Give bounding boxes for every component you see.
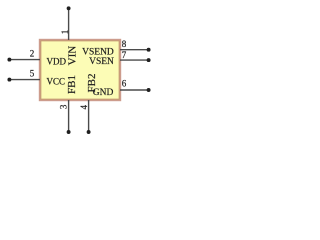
svg-text:VDD: VDD: [47, 57, 67, 67]
svg-text:5: 5: [30, 69, 35, 79]
svg-text:1: 1: [60, 30, 70, 35]
svg-text:7: 7: [122, 50, 127, 60]
svg-text:FB1: FB1: [66, 75, 78, 94]
svg-text:3: 3: [58, 104, 68, 109]
svg-text:VIN: VIN: [67, 46, 79, 66]
svg-text:6: 6: [122, 78, 127, 88]
svg-text:FB2: FB2: [86, 74, 98, 93]
svg-text:4: 4: [79, 105, 89, 110]
svg-text:8: 8: [122, 39, 127, 49]
svg-text:VCC: VCC: [47, 77, 66, 87]
svg-text:2: 2: [30, 49, 35, 59]
svg-text:VSEN: VSEN: [89, 57, 114, 67]
